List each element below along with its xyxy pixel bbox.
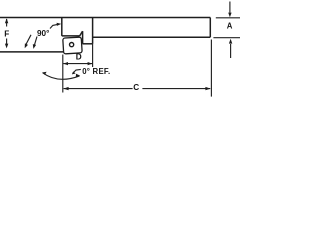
- arrowhead arc left: [42, 72, 47, 75]
- clamp diagonal: [80, 31, 83, 36]
- shank front edge: [93, 36, 211, 38]
- arrowhead D left: [63, 62, 68, 65]
- dimension C line left: [64, 88, 133, 90]
- 0 deg leader: [73, 69, 81, 73]
- arrowhead C left: [63, 87, 68, 90]
- insert hole: [70, 43, 74, 47]
- leader line left: [25, 35, 31, 46]
- angle arc: [43, 73, 80, 79]
- arrowhead C right: [205, 87, 210, 90]
- arrowhead A down: [228, 13, 231, 18]
- extension line top right: [216, 17, 240, 19]
- insert (square with hole): [63, 37, 82, 54]
- tool right edge: [209, 18, 211, 38]
- D right extension line: [92, 44, 94, 67]
- svg-text:D: D: [76, 52, 82, 61]
- svg-text:0° REF.: 0° REF.: [82, 67, 110, 76]
- arrowhead 90 deg: [57, 23, 62, 26]
- pocket bottom edge: [83, 43, 93, 45]
- dimension D line: [63, 63, 92, 65]
- head front edge: [0, 51, 64, 53]
- arrowhead A up: [229, 39, 232, 44]
- pocket floor: [62, 35, 80, 37]
- svg-text:A: A: [227, 22, 233, 31]
- arrowhead 0 deg leader: [72, 72, 76, 75]
- arrowhead D right: [88, 62, 93, 65]
- arrowhead leader right: [33, 44, 36, 49]
- svg-text:90°: 90°: [37, 29, 49, 38]
- pocket left wall: [61, 18, 63, 36]
- svg-text:F: F: [4, 30, 9, 39]
- arrowhead leader left: [25, 43, 28, 48]
- arrowhead arc right: [76, 74, 80, 78]
- dimension F upper segment: [6, 19, 8, 27]
- 90 deg leader line: [50, 24, 58, 28]
- tool top edge: [0, 17, 210, 19]
- clamp right edge: [82, 31, 84, 44]
- dimension F lower segment: [6, 39, 8, 46]
- dimension A lower line: [230, 44, 232, 58]
- extension line right lower: [213, 37, 240, 39]
- svg-text:C: C: [133, 83, 139, 92]
- arrowhead F up: [5, 18, 8, 23]
- dimension A upper line: [229, 2, 231, 13]
- dimension C line right: [142, 88, 210, 90]
- D reference line: [62, 55, 64, 93]
- head-shank boundary line: [92, 18, 94, 44]
- arrowhead F down: [5, 44, 8, 49]
- right extension line vertical: [210, 40, 212, 97]
- leader line right: [34, 37, 37, 46]
